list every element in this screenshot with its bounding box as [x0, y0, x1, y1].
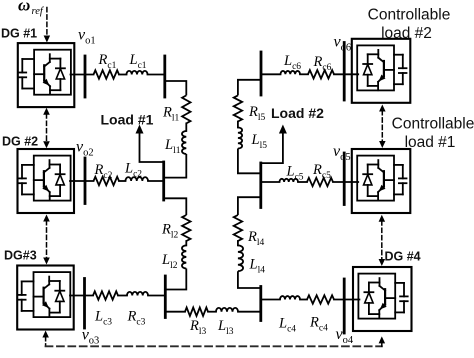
wire Ll5 to bus B4	[238, 149, 261, 174]
resistor Rl4	[234, 215, 242, 241]
wire Ll2 to bus B3	[165, 269, 186, 290]
DG #1 inverter unit U1	[18, 43, 75, 107]
bus vo4	[343, 279, 346, 333]
resistor Rc5	[307, 178, 333, 186]
bus node B5	[260, 52, 263, 95]
wire bus B6 to Lc4	[261, 299, 280, 301]
bus vo1	[84, 56, 87, 97]
wire Rc1 to Lc1	[119, 74, 127, 76]
bus vo6	[343, 43, 346, 101]
inductor Lc5	[280, 179, 298, 182]
resistor Rl2	[182, 215, 190, 241]
svg-text:DG #2: DG #2	[2, 135, 38, 149]
dashed comm arrow Controllable load #2 - Controllable load #1	[381, 111, 383, 143]
load #2 arrow	[261, 133, 283, 163]
svg-text:Controllable: Controllable	[368, 7, 451, 24]
inductor (labeled Rc3)	[127, 292, 148, 296]
dashed comm arrow DG #2 - DG #3	[46, 221, 48, 259]
svg-text:Load #1: Load #1	[101, 111, 154, 127]
dashed comm arrow DG #3 to bottom bus	[45, 337, 47, 347]
resistor Rc6	[308, 70, 334, 78]
resistor Rc4	[307, 295, 334, 303]
resistor Rl5	[234, 95, 242, 121]
inductor Ll1	[182, 131, 186, 154]
inductor Ll2	[182, 245, 186, 268]
svg-text:Controllable: Controllable	[392, 116, 474, 133]
wire to bus B3	[148, 295, 165, 297]
wire Rc6 to bus vo6	[334, 73, 358, 75]
wire bus B1 to Rl1 branch	[165, 81, 187, 95]
bus vo2	[84, 158, 87, 204]
wire Lc1 to bus B1	[148, 74, 165, 76]
dashed comm line bottom	[46, 345, 382, 347]
resistor (labeled Lc3)	[93, 291, 118, 299]
wire Rl3 to Ll3	[208, 311, 216, 313]
DG #4 inverter unit U4	[353, 267, 412, 331]
wire DG1 output to bus vo1	[71, 74, 94, 76]
resistor Rc1	[94, 70, 120, 78]
wire Lc5 to Rc5	[298, 181, 307, 183]
wire Rl4 to Ll4	[237, 241, 239, 245]
wire bus B5 to Lc6	[261, 73, 281, 75]
bus node B4	[259, 163, 262, 208]
wire to coil	[118, 295, 127, 297]
bus vo3	[83, 279, 86, 329]
svg-text:DG #1: DG #1	[1, 26, 37, 40]
wire bus B3 to Rl3	[165, 311, 185, 313]
wire bus B4 to Rl4 branch	[238, 197, 261, 215]
wire DG3 output to bus vo3	[70, 295, 93, 297]
svg-text:DG #4: DG #4	[385, 250, 421, 264]
wire Rl1 to Ll1	[185, 123, 187, 131]
wire Ll1 to bus B2	[164, 154, 187, 178]
inductor Lc2	[126, 177, 148, 181]
wire Lc6 to Rc6	[300, 73, 308, 75]
load #1 arrow	[140, 133, 164, 162]
resistor Rl3	[185, 308, 208, 316]
resistor Rl1	[182, 95, 190, 123]
dashed comm arrow DG #1 - DG #2	[46, 114, 48, 142]
inductor Lc6	[281, 71, 301, 74]
Controllable load #2 inverter unit U6	[352, 39, 411, 103]
inductor Ll3	[216, 308, 238, 312]
bus node B2	[162, 162, 165, 200]
bus node B3	[164, 276, 167, 318]
svg-text:Load #2: Load #2	[271, 105, 324, 121]
inductor Lc4	[280, 296, 300, 299]
dashed comm arrow bottom bus to DG #4	[381, 342, 383, 346]
wire bus B5 to Rl5 branch	[238, 80, 261, 96]
wire Lc2 to bus B2	[148, 180, 164, 182]
wire Rl5 to Ll5	[237, 122, 239, 128]
svg-text:ω: ω	[18, 0, 30, 15]
svg-text:load #2: load #2	[381, 25, 432, 42]
inductor Ll5	[238, 128, 242, 149]
wire Rc2 to Lc2	[119, 180, 126, 182]
inductor Ll4	[238, 245, 243, 271]
wire bus B2 to Rl2 branch	[164, 198, 187, 215]
dashed control arrow omega_ref to DG #1	[46, 8, 48, 37]
DG #2 inverter unit U2	[18, 149, 75, 213]
wire Ll3 to bus B6	[238, 311, 261, 313]
bus node B1	[163, 56, 166, 97]
inductor Lc1	[127, 71, 148, 75]
dashed comm arrow Controllable load #1 - DG #4	[381, 221, 383, 260]
bus vo5	[343, 153, 346, 205]
resistor Rc2	[94, 177, 120, 185]
svg-text:DG#3: DG#3	[4, 248, 37, 262]
wire Rl2 to Ll2	[185, 241, 187, 245]
wire Lc4 to Rc4	[300, 299, 307, 301]
wire Rc5 to bus vo5	[333, 181, 358, 183]
svg-text:load #1: load #1	[405, 134, 456, 151]
wire DG2 output to bus vo2	[70, 180, 94, 182]
bus node B6	[259, 287, 262, 321]
Controllable load #1 inverter unit U5	[352, 149, 411, 213]
wire bus B4 to Lc5	[261, 181, 280, 183]
wire Rc4 to bus vo4	[334, 299, 359, 301]
DG #3 inverter unit U3	[17, 266, 73, 330]
wire Ll4 to bus B6	[238, 271, 261, 288]
